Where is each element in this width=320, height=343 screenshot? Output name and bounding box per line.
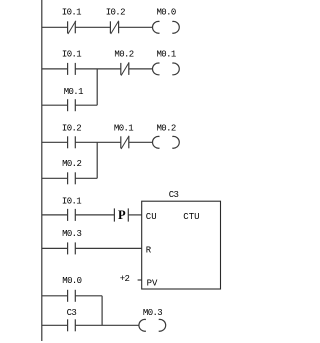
coil M0.1 [153, 63, 160, 75]
contact M0.0 (NO) [67, 290, 69, 302]
svg-text:M0.3: M0.3 [143, 308, 162, 318]
contact C3 (NO) [67, 319, 69, 331]
svg-text:PV: PV [147, 278, 158, 288]
wire rung3 [42, 141, 68, 143]
contact M0.2 (NO) branch rung3 [67, 172, 69, 184]
PV stub wire [138, 279, 142, 281]
svg-text:I0.1: I0.1 [62, 49, 81, 59]
wire rung1 [42, 26, 68, 28]
contact I0.1 (NO) rung4 [67, 209, 69, 221]
contact I0.1 (NC) rung1 [67, 21, 69, 33]
svg-text:CTU: CTU [183, 212, 199, 222]
coil M0.0 [153, 21, 160, 33]
wire rung2 [42, 68, 68, 70]
counter box C3 [142, 201, 221, 289]
wire rung5 top M0.0 line [42, 295, 68, 297]
svg-text:C3: C3 [169, 190, 179, 200]
branch joiner rung3 [96, 142, 98, 178]
wire rung4 R line [42, 247, 68, 249]
svg-text:M0.1: M0.1 [64, 87, 83, 97]
svg-text:P: P [118, 208, 126, 222]
svg-text:M0.0: M0.0 [62, 276, 81, 286]
branch wire rung2 [42, 104, 68, 106]
coil M0.3 [139, 319, 146, 331]
wire rung5 bottom C3 line [42, 324, 68, 326]
branch wire rung3 [42, 177, 68, 179]
svg-text:M0.0: M0.0 [156, 7, 175, 17]
svg-text:I0.2: I0.2 [62, 124, 81, 134]
svg-text:M0.1: M0.1 [114, 124, 133, 134]
coil M0.2 [153, 136, 160, 148]
contact I0.2 (NC) rung1 [109, 21, 111, 33]
branch joiner rung2 [96, 69, 98, 105]
wire rung4 CU line [42, 214, 68, 216]
left power rail [41, 0, 43, 341]
edge detector P bars [113, 208, 115, 221]
joiner rung5 [101, 296, 103, 326]
svg-text:CU: CU [146, 212, 157, 222]
contact M0.1 (NO) branch rung2 [67, 99, 69, 111]
svg-text:+2: +2 [120, 274, 130, 284]
contact M0.3 (NO) [67, 242, 69, 254]
svg-text:C3: C3 [67, 308, 77, 318]
svg-text:M0.3: M0.3 [62, 229, 81, 239]
contact I0.2 (NO) rung3 [67, 136, 69, 148]
contact M0.1 (NC) rung3 [120, 136, 122, 148]
svg-text:R: R [146, 245, 152, 255]
svg-text:M0.2: M0.2 [156, 124, 175, 134]
svg-text:M0.2: M0.2 [62, 159, 81, 169]
svg-text:M0.1: M0.1 [156, 49, 175, 59]
svg-text:I0.2: I0.2 [106, 7, 125, 17]
contact M0.2 (NC) rung2 [120, 63, 122, 75]
svg-text:I0.1: I0.1 [62, 196, 81, 206]
contact I0.1 (NO) rung2 [67, 63, 69, 75]
svg-text:M0.2: M0.2 [114, 49, 133, 59]
svg-text:I0.1: I0.1 [62, 7, 81, 17]
